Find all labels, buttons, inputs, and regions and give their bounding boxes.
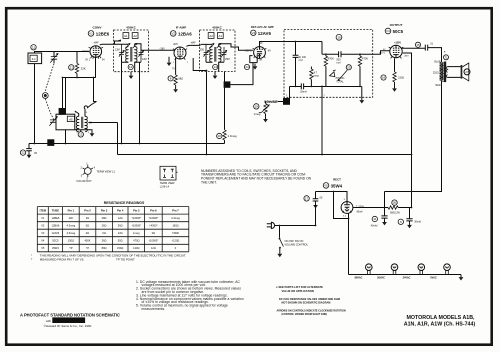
ground below IF T1 xyxy=(130,72,132,73)
svg-text:17: 17 xyxy=(305,197,309,201)
svg-text:7V: 7V xyxy=(172,69,175,71)
V5 bottom to heater string xyxy=(348,213,350,274)
svg-text:-10V 7: -10V 7 xyxy=(81,50,89,53)
svg-text:12Ω: 12Ω xyxy=(151,246,156,250)
svg-text:12BE6: 12BE6 xyxy=(52,216,60,220)
svg-text:26: 26 xyxy=(393,201,397,205)
svg-text:mxf: mxf xyxy=(336,62,340,65)
svg-text:V5: V5 xyxy=(324,184,328,188)
svg-text:12Ω: 12Ω xyxy=(118,216,123,220)
svg-text:11: 11 xyxy=(373,217,376,221)
svg-text:(CONTROL VIEWED FROM SHAFT END: (CONTROL VIEWED FROM SHAFT END) xyxy=(282,313,328,316)
svg-text:4: 4 xyxy=(285,99,288,104)
gang dashed line xyxy=(45,64,54,120)
V5 heater U-loop xyxy=(334,192,349,219)
svg-text:A1N, A1R, A1W (Ch. HS-744): A1N, A1R, A1W (Ch. HS-744) xyxy=(404,321,476,327)
svg-text:V1: V1 xyxy=(41,216,45,220)
svg-text:26VAC: 26VAC xyxy=(377,277,385,280)
svg-text:11: 11 xyxy=(32,45,35,49)
svg-text:TERM VIEW: TERM VIEW xyxy=(160,181,175,185)
svg-text:450K: 450K xyxy=(84,239,90,243)
gang dot xyxy=(42,93,48,99)
svg-text:with: with xyxy=(46,319,52,323)
svg-text:50Ω: 50Ω xyxy=(118,239,123,243)
svg-text:50C5: 50C5 xyxy=(52,239,59,243)
AVC resistor 3.3meg item 20 xyxy=(224,72,226,130)
svg-text:20: 20 xyxy=(218,134,222,138)
svg-text:27: 27 xyxy=(465,70,469,74)
svg-text:†120Ω: †120Ω xyxy=(172,239,180,243)
item 12 circle xyxy=(128,64,133,69)
svg-text:RECT: RECT xyxy=(333,178,341,182)
tube V1 12BE6 converter xyxy=(81,25,109,61)
svg-text:1: 1 xyxy=(50,141,53,146)
ground below IF T2 xyxy=(214,72,216,74)
IF T2 vertical to B+ bus xyxy=(206,72,208,155)
svg-text:26Ω: 26Ω xyxy=(102,223,107,227)
svg-text:VALUE OR APPLICATION: VALUE OR APPLICATION xyxy=(282,289,314,293)
resistor 22K item 21 xyxy=(69,51,86,77)
primary coil xyxy=(126,47,128,62)
svg-text:THE UNIT.: THE UNIT. xyxy=(201,181,217,185)
svg-text:36Ω: 36Ω xyxy=(118,223,123,227)
resistor 4.7meg xyxy=(310,67,312,70)
svg-text:470K: 470K xyxy=(362,57,368,61)
secondary coil xyxy=(135,47,137,62)
control arrow item 23 xyxy=(338,70,347,81)
item 18 circle xyxy=(336,34,342,40)
svg-text:40mfd: 40mfd xyxy=(371,224,378,227)
svg-text:455KC: 455KC xyxy=(212,25,222,29)
V5 plate wire xyxy=(316,192,348,202)
svg-text:+87F: +87F xyxy=(173,44,179,46)
svg-text:meg: meg xyxy=(314,75,319,78)
loop antenna L1 item 11 xyxy=(28,45,42,64)
detector rail xyxy=(322,53,373,55)
svg-text:88VAC: 88VAC xyxy=(355,277,363,280)
svg-text:1meg: 1meg xyxy=(254,112,261,116)
svg-text:†10000*: †10000* xyxy=(131,223,141,227)
svg-text:Pin 5: Pin 5 xyxy=(133,208,140,212)
svg-text:50C5: 50C5 xyxy=(393,29,404,34)
svg-text:22K: 22K xyxy=(81,67,86,71)
svg-text:TUBE: TUBE xyxy=(52,208,60,212)
B+ filter: cathode wire with resistor item 26 xyxy=(353,207,388,209)
svg-text:TOTAL: TOTAL xyxy=(336,80,344,83)
svg-text:12BA6: 12BA6 xyxy=(178,32,192,37)
svg-text:V1: V1 xyxy=(89,32,93,36)
svg-text:CONV: CONV xyxy=(93,25,103,29)
svg-text:DET-AVC-AF AMP: DET-AVC-AF AMP xyxy=(251,25,274,29)
black square 2 xyxy=(59,108,66,115)
svg-text:A1: A1 xyxy=(124,34,128,38)
svg-text:.05: .05 xyxy=(33,152,37,155)
svg-text:12AV6: 12AV6 xyxy=(258,31,272,36)
svg-text:MOTOROLA MODELS A1B,: MOTOROLA MODELS A1B, xyxy=(406,315,475,321)
svg-text:RED: RED xyxy=(436,84,441,87)
black square 3 xyxy=(224,81,231,87)
V2 grid ground stub xyxy=(168,57,170,60)
svg-text:MEASURED FROM PIN 7 OF V5.: MEASURED FROM PIN 7 OF V5. xyxy=(40,257,85,261)
svg-text:Pin 3: Pin 3 xyxy=(101,208,108,212)
B+ link wire to filter xyxy=(385,191,442,193)
svg-text:28Ω: 28Ω xyxy=(102,216,107,220)
svg-text:RESISTANCE READINGS: RESISTANCE READINGS xyxy=(104,201,145,205)
B+ feed from osc area xyxy=(88,123,117,155)
svg-text:150Ω: 150Ω xyxy=(398,77,404,80)
V3 cathode network item 24 xyxy=(250,55,257,63)
vertical from detector to B+ bus xyxy=(321,87,323,155)
svg-text:†450K: †450K xyxy=(172,231,180,235)
svg-text:80Ω: 80Ω xyxy=(102,246,107,250)
diode detector xyxy=(330,70,336,77)
svg-text:4.3meg: 4.3meg xyxy=(67,223,76,227)
svg-text:4.6meg: 4.6meg xyxy=(67,231,76,235)
svg-text:DC COIL RESISTANCE VALUES UNDE: DC COIL RESISTANCE VALUES UNDER ONE OHM xyxy=(279,297,340,301)
svg-text:22: 22 xyxy=(21,151,25,155)
svg-text:35W4: 35W4 xyxy=(331,184,343,189)
svg-text:Pin 2: Pin 2 xyxy=(84,208,91,212)
svg-text:390: 390 xyxy=(200,49,205,52)
V3 grid wire from IF T2 xyxy=(233,47,253,50)
svg-text:0Ω: 0Ω xyxy=(102,231,105,235)
V4 grid wire xyxy=(373,51,390,55)
svg-text:160Ω: 160Ω xyxy=(172,223,178,227)
svg-text:A2: A2 xyxy=(133,34,137,38)
svg-text:Pin 7: Pin 7 xyxy=(172,208,179,212)
svg-text:+84F: +84F xyxy=(190,43,196,45)
svg-text:V4: V4 xyxy=(41,239,45,243)
svg-text:36Ω: 36Ω xyxy=(102,239,107,243)
line filter cap item 17 xyxy=(315,192,317,203)
svg-text:470K: 470K xyxy=(328,57,334,61)
svg-text:18: 18 xyxy=(337,35,341,39)
detector ground xyxy=(361,87,363,98)
svg-text:12M: 12M xyxy=(142,58,147,61)
V4 cathode resistor item 16 xyxy=(394,58,396,72)
svg-text:150Ω: 150Ω xyxy=(68,239,74,243)
osc ground xyxy=(75,129,92,132)
svg-text:2: 2 xyxy=(61,109,64,114)
svg-text:A2: A2 xyxy=(209,34,213,38)
svg-text:120Ω: 120Ω xyxy=(133,246,139,250)
svg-text:21: 21 xyxy=(70,66,74,70)
svg-text:13: 13 xyxy=(79,133,83,137)
V1 cathode stub xyxy=(95,57,97,77)
svg-text:0Ω: 0Ω xyxy=(152,231,155,235)
svg-text:0Ω: 0Ω xyxy=(86,231,89,235)
svg-text:L2-B-14: L2-B-14 xyxy=(160,184,170,188)
filter cap 40mfd item 11A xyxy=(384,192,386,216)
svg-text:V3: V3 xyxy=(251,31,255,35)
svg-text:ITEM: ITEM xyxy=(40,208,47,212)
svg-text:3.3meg: 3.3meg xyxy=(228,134,237,138)
svg-text:+100V: +100V xyxy=(394,41,401,44)
resistor 470K xyxy=(359,54,361,56)
svg-text:0V 1: 0V 1 xyxy=(85,60,90,62)
svg-text:220Ω: 220Ω xyxy=(433,71,439,74)
svg-text:T1: T1 xyxy=(444,55,448,59)
AVC cap (2) 100mxf xyxy=(293,41,307,87)
svg-text:0Ω: 0Ω xyxy=(86,223,89,227)
svg-text:+84F: +84F xyxy=(93,43,99,45)
svg-text:150Ω: 150Ω xyxy=(117,246,123,250)
svg-text:3Ω: 3Ω xyxy=(86,216,89,220)
V2 plate wire to IF T2 xyxy=(186,44,200,47)
svg-text:880Ω 2W: 880Ω 2W xyxy=(390,213,400,215)
svg-text:19: 19 xyxy=(255,105,259,109)
svg-text:V2: V2 xyxy=(171,32,175,36)
tuning capacitor C1A xyxy=(50,51,58,63)
svg-text:35W4: 35W4 xyxy=(52,246,59,250)
svg-text:12: 12 xyxy=(129,65,133,69)
svg-text:12M: 12M xyxy=(115,48,120,51)
svg-text:COLOR DOT: COLOR DOT xyxy=(76,179,92,183)
on-off switch xyxy=(279,226,281,238)
svg-text:A5: A5 xyxy=(69,118,73,122)
trimmers xyxy=(119,50,124,56)
svg-text:mxf: mxf xyxy=(299,59,303,62)
svg-text:23: 23 xyxy=(347,65,351,69)
svg-text:OUTPUT: OUTPUT xyxy=(390,23,403,27)
svg-text:V5: V5 xyxy=(41,246,45,250)
wire antenna to grid bus xyxy=(35,52,90,144)
svg-text:TP: TP xyxy=(69,246,73,250)
svg-text:†P: †P xyxy=(86,246,89,250)
svg-text:455KC: 455KC xyxy=(126,25,136,29)
svg-text:470Ω: 470Ω xyxy=(133,239,139,243)
svg-text:PONENT REPLACEMENT AND MAY NOT: PONENT REPLACEMENT AND MAY NOT NECESSARI… xyxy=(201,177,312,181)
V2 grid wire from IF T1 xyxy=(146,49,174,51)
osc padder cap C1B on left edge xyxy=(49,117,57,126)
svg-text:4R: 4R xyxy=(259,59,262,61)
coupling cap 500mxf inline xyxy=(339,51,341,57)
svg-text:22K: 22K xyxy=(69,216,74,220)
black square 1 xyxy=(47,139,54,146)
svg-text:30mfd: 30mfd xyxy=(414,220,421,223)
svg-text:©Howard W. Sams & Co., Inc. 19: ©Howard W. Sams & Co., Inc. 1960 xyxy=(44,324,92,328)
svg-text:12Ω: 12Ω xyxy=(118,231,123,235)
item 13 circle below coil xyxy=(80,130,82,132)
svg-text:12BA6: 12BA6 xyxy=(52,223,60,227)
svg-text:*: * xyxy=(31,253,32,257)
osc coil top pigtail and wires xyxy=(75,102,97,117)
svg-text:+85V: +85V xyxy=(404,55,410,57)
V2 cathode resistor 68 ohm item 8 xyxy=(175,58,177,75)
svg-text:0VAC: 0VAC xyxy=(430,277,437,280)
svg-text:V2: V2 xyxy=(41,223,45,227)
svg-text:CIRCUITRACE: CIRCUITRACE xyxy=(57,319,81,323)
svg-text:24: 24 xyxy=(245,65,249,69)
svg-text:.05mxf: .05mxf xyxy=(300,90,308,93)
speaker xyxy=(448,63,470,81)
bottom rail with inline cap .05mxf xyxy=(290,86,362,88)
svg-text:†4300*: †4300* xyxy=(149,223,157,227)
svg-text:12BE6: 12BE6 xyxy=(96,32,110,37)
svg-text:TERM VIEW L1: TERM VIEW L1 xyxy=(97,169,116,173)
svg-text:ARROWS ON CONTROLS INDICATE CL: ARROWS ON CONTROLS INDICATE CLOCKWISE RO… xyxy=(277,309,346,312)
svg-text:1meg: 1meg xyxy=(133,231,140,235)
V4 screen to B+ vertical xyxy=(403,53,412,208)
svg-text:16: 16 xyxy=(382,76,386,80)
wire 22K bottom loop xyxy=(63,78,97,102)
svg-text:24VAC: 24VAC xyxy=(403,277,411,280)
svg-text:†10000*: †10000* xyxy=(131,216,141,220)
top wire from V3 plate to rail xyxy=(321,42,323,55)
svg-text:V4: V4 xyxy=(386,29,390,33)
svg-text:4.3meg: 4.3meg xyxy=(171,216,180,220)
svg-text:12AV6: 12AV6 xyxy=(52,231,60,235)
svg-text:● SEE PARTS LIST FOR ALTERNATE: ● SEE PARTS LIST FOR ALTERNATE xyxy=(276,285,323,289)
V3 plate wire up into detector box xyxy=(260,42,323,47)
osc coil T2 xyxy=(56,112,93,134)
svg-text:†10000*: †10000* xyxy=(149,239,159,243)
svg-text:25M: 25M xyxy=(225,58,230,61)
svg-text:Pin 1: Pin 1 xyxy=(68,208,75,212)
AVC/diode line to V3 xyxy=(230,63,253,85)
svg-text:A1: A1 xyxy=(219,34,223,38)
svg-text:V3: V3 xyxy=(41,231,45,235)
V1 plate wire to IF T1 xyxy=(100,40,121,45)
svg-text:68Ω: 68Ω xyxy=(178,77,183,80)
V4 plate wire with cap item 15 xyxy=(402,48,442,62)
filter cap 30mfd item 6 xyxy=(410,208,412,219)
svg-text:80mA: 80mA xyxy=(357,211,363,214)
IF T1 verticals to AVC bus xyxy=(122,62,140,143)
resistor 47K xyxy=(325,54,327,56)
svg-text:IF AMP: IF AMP xyxy=(176,25,186,29)
svg-text:†10000*: †10000* xyxy=(149,216,159,220)
svg-text:NOT SHOWN ON SCHEMATIC DIAGRAM: NOT SHOWN ON SCHEMATIC DIAGRAM xyxy=(282,300,331,304)
svg-text:Pin 6: Pin 6 xyxy=(150,208,157,212)
svg-text:15: 15 xyxy=(416,43,420,47)
svg-text:-8V: -8V xyxy=(267,50,271,52)
svg-text:ON-OFF SW ON: ON-OFF SW ON xyxy=(285,240,304,243)
svg-text:Pin 4: Pin 4 xyxy=(117,208,124,212)
svg-text:A PHOTOFACT STANDARD NOTATION: A PHOTOFACT STANDARD NOTATION SCHEMATIC xyxy=(20,312,120,317)
svg-text:VOLUME CONTROL: VOLUME CONTROL xyxy=(285,244,309,247)
V2 screen feed to B+ xyxy=(193,58,206,71)
core xyxy=(131,47,132,62)
svg-text:TP TIE POINT: TP TIE POINT xyxy=(116,257,135,261)
svg-text:14: 14 xyxy=(214,65,218,69)
svg-text:3-4: 3-4 xyxy=(32,57,36,61)
AVC bypass cap item 22 xyxy=(28,144,30,153)
svg-text:measurements.: measurements. xyxy=(142,307,166,311)
